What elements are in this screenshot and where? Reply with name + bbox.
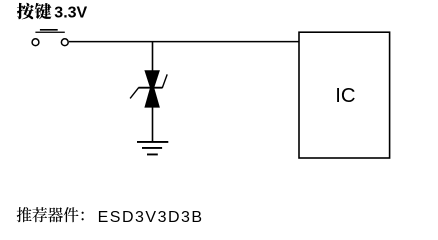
svg-text:3.3V: 3.3V [54,5,87,22]
push-button switch S1 [32,29,68,46]
ground [137,141,168,155]
note 推荐器件：ESD3V3D3B [17,207,204,226]
wire switch to IC [69,41,299,43]
IC U1 [299,32,390,158]
TVS diode D1 [130,70,167,107]
wire TVS to ground [152,107,154,142]
wire branch to TVS [152,42,154,71]
svg-text:IC: IC [335,85,355,107]
svg-text:ESD3V3D3B: ESD3V3D3B [98,209,204,226]
node label 按键 3.3V [17,3,88,22]
